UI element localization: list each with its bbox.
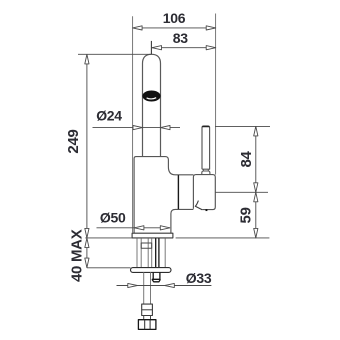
aerator ring: [142, 91, 160, 102]
dim 106: [133, 26, 216, 30]
deck line left: [85, 237, 132, 239]
dim O50: [97, 226, 170, 230]
outlet tick: [206, 209, 208, 211]
valve body edge: [177, 175, 179, 209]
dim 59: [254, 192, 258, 238]
dim 83: [152, 46, 216, 50]
shank outer tube: [137, 238, 165, 267]
svg-text:59: 59: [238, 207, 255, 223]
base flange: [132, 233, 173, 238]
dim O33: [117, 283, 212, 287]
spout tube: [143, 54, 161, 156]
hoses above washer: [141, 238, 152, 267]
ext line outlet axis: [215, 191, 268, 193]
dim 40 MAX: [85, 238, 89, 268]
hose coupling box: [141, 243, 152, 248]
svg-text:Ø33: Ø33: [186, 270, 212, 286]
extension line body-left: [132, 16, 134, 233]
svg-text:40 MAX: 40 MAX: [68, 229, 85, 282]
hose neck: [144, 316, 151, 320]
lever neck: [203, 169, 208, 171]
ext line lever top: [215, 125, 270, 127]
lever collar: [202, 171, 210, 175]
lever top cap: [202, 126, 209, 128]
svg-text:84: 84: [238, 151, 255, 168]
hex nut: [138, 320, 156, 330]
body column: [134, 157, 193, 234]
washer: [131, 268, 172, 273]
washer top extension: [87, 267, 131, 269]
svg-text:83: 83: [173, 30, 188, 46]
ext line deck right: [176, 237, 270, 239]
handle housing: [193, 175, 215, 210]
dim O24: [93, 126, 181, 130]
svg-text:249: 249: [65, 129, 82, 153]
dim 249: [78, 54, 151, 238]
spout axis tick: [150, 41, 152, 55]
svg-text:106: 106: [163, 10, 186, 26]
body column lower step: [171, 209, 194, 233]
extension line handle-right: [215, 14, 217, 175]
outlet beak: [195, 201, 202, 210]
svg-text:Ø50: Ø50: [100, 210, 126, 226]
svg-text:Ø24: Ø24: [96, 108, 122, 124]
stud nut below washer: [152, 272, 161, 281]
hoses below washer: [144, 272, 151, 304]
hose coupling: [142, 304, 153, 315]
dim 84: [254, 126, 258, 192]
lever bar: [202, 126, 210, 169]
threaded stud: [156, 238, 159, 267]
